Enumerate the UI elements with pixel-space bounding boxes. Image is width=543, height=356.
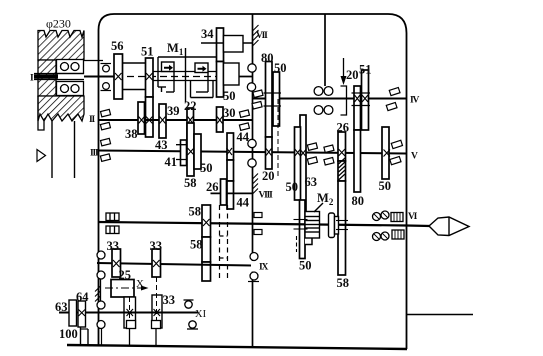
svg-text:VII: VII (256, 31, 268, 41)
bottom bearing squares (127, 321, 161, 347)
gear 33 a (112, 249, 121, 277)
shaft X box (111, 280, 134, 298)
svg-text:50: 50 (223, 89, 236, 103)
shaft IV (253, 98, 407, 100)
svg-text:33: 33 (150, 239, 163, 253)
svg-text:IV: IV (410, 96, 419, 106)
svg-text:M1: M1 (167, 41, 184, 57)
gear 22 (187, 108, 194, 140)
svg-text:80: 80 (352, 194, 365, 208)
bearing wall-right shaft IV (386, 87, 400, 110)
shaft I (34, 63, 253, 90)
gear 64 shaft XI (78, 301, 86, 327)
svg-text:XI: XI (195, 309, 207, 320)
gear 39/43 column (159, 104, 166, 138)
svg-text:20: 20 (262, 169, 275, 183)
down arrow with 20 (343, 58, 345, 78)
svg-text:51: 51 (359, 63, 372, 77)
svg-text:63: 63 (305, 175, 318, 189)
X bearing circles (97, 301, 105, 309)
svg-text:26: 26 (206, 180, 219, 194)
bearing wall-left shaft VI (106, 213, 119, 234)
hatch on column (339, 158, 346, 180)
gear 41 column (181, 140, 187, 166)
line pulley top to wall (84, 60, 104, 62)
svg-text:50: 50 (299, 259, 312, 273)
bearing wall-left shaft III (100, 138, 110, 161)
svg-text:43: 43 (155, 138, 168, 152)
svg-text:I: I (30, 74, 34, 84)
gear 33 b (152, 249, 161, 277)
svg-text:80: 80 (261, 51, 274, 65)
shaft V mid bearings (307, 143, 334, 165)
pulley bearing block upper (57, 60, 84, 74)
svg-text:63: 63 (55, 300, 68, 314)
svg-text:100: 100 (59, 327, 78, 341)
gear 80 column shaft IV/V right (354, 86, 361, 192)
clutch M2 (305, 203, 339, 238)
belt line right (74, 121, 76, 178)
gear 100 lines (80, 327, 82, 346)
gear 26/58 column shaft V (338, 132, 346, 275)
svg-text:50: 50 (200, 161, 213, 175)
gear 34 column (217, 28, 224, 62)
bottom-right outlet line (407, 314, 474, 316)
gear 80/20 column (266, 62, 273, 170)
svg-text:IX: IX (259, 263, 268, 273)
shaft III / V (99, 151, 407, 154)
svg-text:56: 56 (111, 39, 124, 53)
pulley phi230 (38, 31, 84, 131)
svg-text:VIII: VIII (259, 191, 274, 201)
svg-text:VI: VI (408, 212, 418, 222)
hub sleeve lines shaft III (176, 144, 201, 146)
svg-text:38: 38 (125, 127, 138, 141)
belt line left (51, 121, 53, 178)
shaft IV bearing bracket (341, 86, 347, 115)
gear 51 shaft IV (362, 70, 369, 130)
gear 58 tall column shaft VI (202, 205, 211, 281)
svg-text:44: 44 (237, 196, 250, 210)
gear 50 shaft V right (382, 127, 389, 179)
gear 33 c (152, 295, 162, 328)
dash centerline 80/50 (277, 99, 279, 178)
svg-text:50: 50 (379, 179, 392, 193)
gear 51 shaft I (146, 58, 154, 97)
bearing wall-mid shaft VI (254, 213, 262, 235)
bearing wall-left shaft I lower (101, 83, 112, 91)
svg-text:50: 50 (274, 61, 287, 75)
X wall hatch (95, 286, 101, 302)
shaft VI (99, 222, 407, 226)
shaft XI (59, 312, 198, 314)
shaft VII (201, 42, 253, 44)
gear 50 shaft VI (300, 200, 306, 259)
hub on shaft VII (224, 36, 244, 53)
gear 30 (217, 107, 224, 132)
shaft IX right bearing circles (250, 253, 258, 261)
wall circles shaft I (248, 64, 256, 72)
gear 63 column (300, 115, 306, 212)
gear 58 shaft III (187, 123, 194, 176)
svg-text:M2: M2 (317, 191, 334, 207)
gear 56 (114, 54, 123, 99)
gear 50 column (shaft I hub) (217, 62, 224, 98)
svg-text:64: 64 (76, 290, 89, 304)
shaft IX left bearing circles (97, 251, 105, 259)
bearing wall-mid shaft IV (252, 90, 263, 109)
pulley bearing block lower (57, 82, 84, 96)
svg-text:26: 26 (337, 121, 350, 135)
gear 50 column shaft V left (295, 127, 301, 200)
gear 63 shaft XI (69, 300, 77, 326)
gear 38 right (meshing below 51) (146, 97, 154, 137)
svg-text:V: V (411, 152, 418, 162)
svg-text:39: 39 (167, 104, 180, 118)
ghost gear column (dashed) (221, 179, 227, 205)
bottom bearing circle w stem (101, 329, 103, 347)
shaft II (99, 119, 253, 121)
clutch M1 (158, 48, 219, 102)
svg-text:25: 25 (119, 268, 132, 282)
svg-text:20: 20 (346, 68, 359, 82)
gear 50 shaft III (194, 134, 201, 169)
svg-text:33: 33 (107, 239, 120, 253)
bearing wall-mid shaft II (239, 110, 249, 131)
wall circles shaft III (248, 139, 256, 147)
svg-text:22: 22 (184, 99, 197, 113)
housing outline (99, 14, 407, 349)
sleeve 56-51 (121, 62, 147, 64)
bearing wall-right shaft VI (373, 211, 405, 241)
sleeve M1 (152, 71, 217, 73)
svg-text:φ230: φ230 (46, 17, 71, 31)
shaft IV mid bearing circles (314, 87, 333, 115)
svg-text:X: X (136, 278, 144, 290)
svg-text:34: 34 (201, 27, 214, 41)
gear 50 shaft IV left (273, 72, 280, 126)
svg-text:41: 41 (165, 155, 178, 169)
shaft VIII (211, 192, 253, 194)
housing bottom line (67, 345, 407, 349)
svg-text:33: 33 (163, 293, 176, 307)
hub on shaft I (224, 63, 240, 85)
mesh tick marks (79, 73, 391, 316)
motor triangle (37, 150, 46, 162)
wall hatch VII (253, 25, 259, 46)
shaft IX (97, 263, 252, 266)
bearing wall-left shaft I upper (101, 64, 112, 72)
bearing wall-right shaft V (390, 140, 403, 164)
svg-text:50: 50 (286, 180, 299, 194)
mesh tick lines shaft IV at 80/50 columns (264, 92, 282, 94)
internal wall (252, 14, 254, 346)
bottom bearing omega (184, 300, 199, 329)
svg-text:30: 30 (223, 106, 236, 120)
hanger line to shaft IV bearing (324, 14, 326, 86)
svg-text:58: 58 (184, 176, 197, 190)
wall gap at IX (251, 261, 254, 272)
svg-text:58: 58 (189, 205, 202, 219)
wall hatch VIII (253, 174, 259, 195)
svg-text:51: 51 (141, 45, 154, 59)
gear 44 column (227, 133, 234, 209)
column below X box (124, 297, 136, 328)
svg-text:II: II (89, 115, 95, 125)
svg-text:58: 58 (190, 238, 203, 252)
gear 38 left (138, 102, 145, 134)
bearing wall-left shaft II (100, 109, 110, 130)
svg-text:58: 58 (337, 276, 350, 290)
output arrow (429, 217, 469, 236)
